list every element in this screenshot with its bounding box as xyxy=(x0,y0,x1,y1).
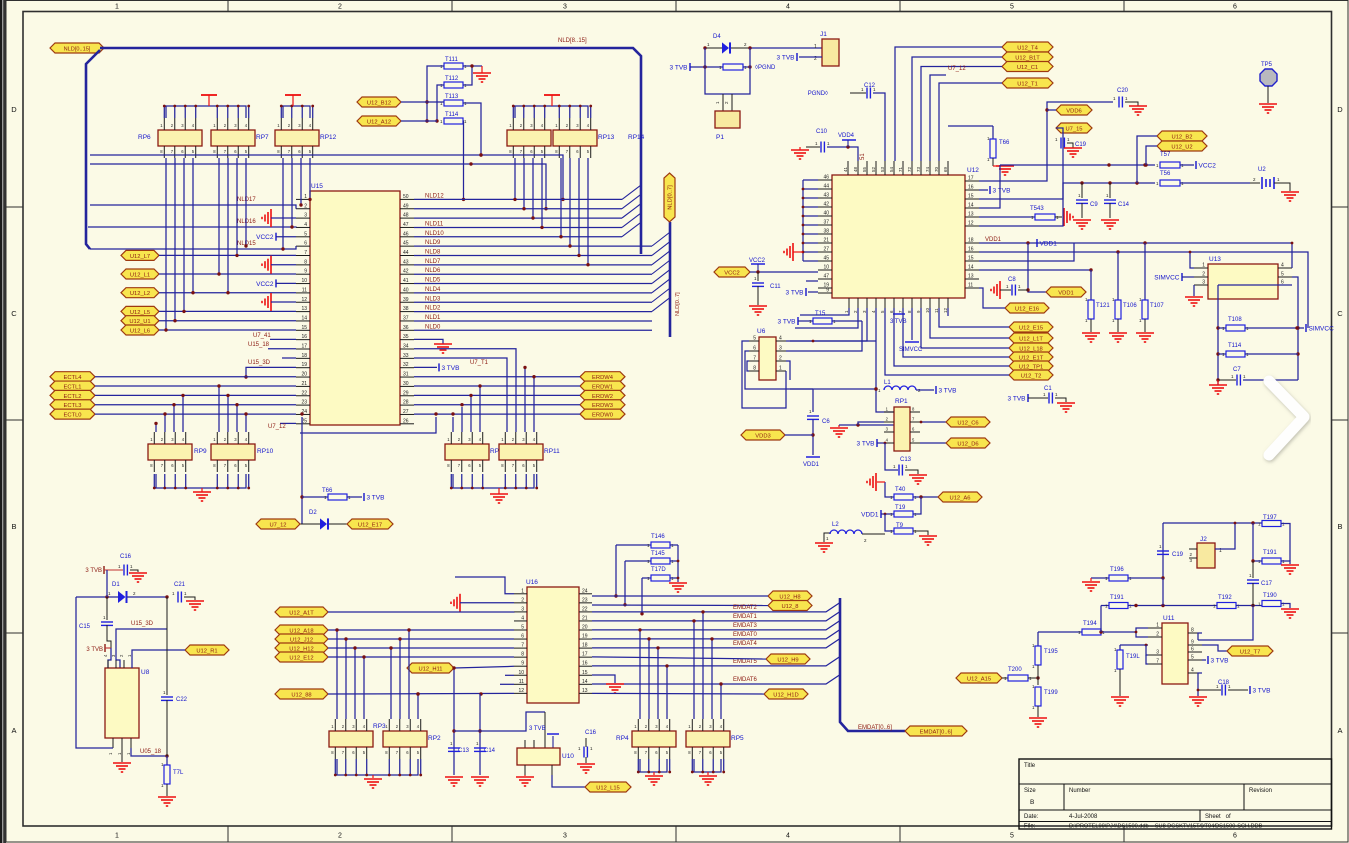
wire C14b vertical xyxy=(479,694,481,775)
svg-text:T543: T543 xyxy=(1030,206,1044,212)
svg-text:U12_H8: U12_H8 xyxy=(779,594,800,600)
svg-text:RP4: RP4 xyxy=(616,735,629,742)
wire U11 to C18 xyxy=(1198,689,1221,691)
wire U16 pin23 xyxy=(592,604,768,607)
wire ERDW4 xyxy=(414,376,580,378)
ground U11 xyxy=(1189,696,1207,698)
svg-text:U12_A1T: U12_A1T xyxy=(289,610,314,616)
svg-text:ECTL3: ECTL3 xyxy=(63,403,81,409)
svg-text:26: 26 xyxy=(403,418,409,424)
svg-text:14: 14 xyxy=(968,203,974,209)
svg-text:RP3: RP3 xyxy=(373,723,386,730)
wire U13 pin1 tap xyxy=(1190,252,1194,268)
svg-text:1: 1 xyxy=(1156,623,1159,629)
svg-text:3 TVB: 3 TVB xyxy=(778,319,796,326)
wire U12_T4 xyxy=(895,47,1002,161)
wire U12 bottom pin12 drop xyxy=(947,308,949,316)
power VCC2 at U15 pin5 xyxy=(275,233,277,241)
svg-text:8: 8 xyxy=(521,652,524,658)
wire U15 pin16 stub xyxy=(270,338,296,340)
svg-text:U15: U15 xyxy=(311,183,323,190)
svg-text:15: 15 xyxy=(968,256,974,262)
wire U16 pin17 xyxy=(592,657,766,659)
svg-text:B: B xyxy=(1337,522,1342,531)
bus NLD[0..7] vertical xyxy=(669,222,672,337)
port ECTL2 xyxy=(50,390,95,400)
power VDD1 bar xyxy=(1036,239,1038,247)
wire U7_12 top xyxy=(930,75,946,161)
wire U12 pin15 to U7_15 xyxy=(979,128,1063,199)
port U12_L15 xyxy=(585,782,631,792)
window left dark edge xyxy=(0,0,2,843)
wire T146 chain right xyxy=(677,545,679,582)
svg-text:T17D: T17D xyxy=(651,567,666,573)
resistor pack RP13 xyxy=(507,130,551,146)
border row ticks xyxy=(6,206,23,208)
ground T19L xyxy=(1111,696,1129,698)
svg-text:U15_18: U15_18 xyxy=(248,342,270,348)
port U12_E12 xyxy=(275,652,328,662)
port ECTL4 xyxy=(50,372,95,382)
wire U12_A1T xyxy=(328,611,514,613)
ground C16 xyxy=(129,572,147,574)
port U12_C1 xyxy=(1002,62,1053,72)
svg-text:73: 73 xyxy=(916,166,921,172)
port NLD[0..15] xyxy=(50,43,104,53)
svg-text:U12_T7: U12_T7 xyxy=(1240,649,1261,655)
port U12_U2 xyxy=(1157,141,1207,151)
wire U12 left vertical tie xyxy=(802,180,804,261)
svg-text:U12_L15: U12_L15 xyxy=(596,785,620,791)
U12 right pins top xyxy=(965,180,979,182)
wire T191 branch down xyxy=(1100,606,1102,633)
resistor pack RP6 xyxy=(158,130,202,146)
svg-text:54: 54 xyxy=(889,166,894,172)
svg-text:NLD0: NLD0 xyxy=(425,324,441,330)
wire VCC2 to U12 pin xyxy=(750,271,818,273)
svg-text:T114: T114 xyxy=(445,112,459,118)
svg-text:U12_A12: U12_A12 xyxy=(367,119,391,125)
svg-text:T146: T146 xyxy=(651,534,665,540)
power SIMVCC below U12 xyxy=(911,308,913,340)
wire D4 to J1 xyxy=(750,47,822,49)
wire J2 pin1 xyxy=(1215,523,1235,549)
wire U12 left pin bundle xyxy=(803,179,818,181)
port VDD3 xyxy=(741,430,785,440)
U16 left pins xyxy=(514,593,527,595)
wire RP4 pins up xyxy=(639,630,641,719)
port U12_L1 xyxy=(121,269,159,279)
svg-text:T111: T111 xyxy=(445,57,458,63)
port U12_A15 xyxy=(956,673,1002,683)
svg-text:C11: C11 xyxy=(770,284,781,290)
wire ERDW1 xyxy=(414,385,580,387)
svg-text:21: 21 xyxy=(301,381,307,387)
svg-text:U12_8: U12_8 xyxy=(781,604,798,610)
ground U16 pin15 xyxy=(606,683,624,685)
wire C13b vertical xyxy=(453,668,455,775)
port ERDW3 xyxy=(580,400,625,410)
svg-text:U12_C6: U12_C6 xyxy=(957,420,978,426)
svg-text:47: 47 xyxy=(823,274,829,280)
svg-text:17: 17 xyxy=(582,652,588,658)
svg-text:U12_A6: U12_A6 xyxy=(950,495,971,501)
ground RP3/RP2 xyxy=(364,778,382,780)
svg-text:T191: T191 xyxy=(1263,550,1277,556)
svg-text:T57: T57 xyxy=(1160,152,1171,158)
U15 right NLD wires xyxy=(414,198,622,200)
power TVB at U10 xyxy=(547,733,559,735)
resistor pack RP4 xyxy=(632,731,676,747)
svg-text:T40: T40 xyxy=(895,487,906,493)
svg-text:36: 36 xyxy=(403,325,409,331)
wire U6 left loop xyxy=(742,341,786,408)
wire U15 pin25 stub xyxy=(280,422,296,424)
U11 right pins xyxy=(1188,632,1202,634)
port U12_A1T xyxy=(275,607,328,617)
svg-text:3 TVB: 3 TVB xyxy=(890,319,907,325)
svg-text:J1: J1 xyxy=(820,31,827,38)
svg-text:C15: C15 xyxy=(79,624,91,630)
U8 bottom pins xyxy=(112,738,114,748)
svg-text:3 TVB: 3 TVB xyxy=(367,495,385,502)
wire T114 right down xyxy=(462,121,465,199)
ground T190 xyxy=(1281,608,1299,610)
svg-text:14: 14 xyxy=(582,679,588,685)
wire U11 pin9 port xyxy=(1202,645,1227,651)
wire J1 pin2 xyxy=(799,56,822,58)
ground U8 xyxy=(121,748,123,762)
ground C14 xyxy=(1101,219,1119,221)
wire U7_12 xyxy=(300,417,436,433)
port U12_A18 xyxy=(275,625,328,635)
svg-text:U8: U8 xyxy=(141,669,150,676)
U12 left pins xyxy=(818,179,832,181)
port U12_H9 xyxy=(766,654,810,664)
U6 left pins xyxy=(749,340,759,342)
wire U12_L1 xyxy=(159,273,296,275)
wire U16 pin1 stub xyxy=(455,577,514,594)
svg-text:4-Jul-2008: 4-Jul-2008 xyxy=(1069,814,1098,820)
wire U13 pin3 ground xyxy=(1193,285,1195,296)
svg-text:J2: J2 xyxy=(1200,536,1207,543)
svg-text:T192: T192 xyxy=(1218,595,1232,601)
svg-text:16: 16 xyxy=(301,334,307,340)
port U7_15 xyxy=(1056,123,1092,133)
svg-text:NLD10: NLD10 xyxy=(425,231,444,237)
svg-text:55: 55 xyxy=(862,166,867,172)
svg-text:U7_12: U7_12 xyxy=(948,66,966,72)
U16 right pins xyxy=(579,593,592,595)
svg-text:NLD1: NLD1 xyxy=(425,315,441,321)
svg-text:U15_3D: U15_3D xyxy=(248,360,271,366)
svg-text:NLD7: NLD7 xyxy=(425,259,441,265)
U12 right pins bottom xyxy=(965,242,979,244)
wire U12 pin17 to VDD6 net xyxy=(979,102,1113,181)
svg-text:U12_U1: U12_U1 xyxy=(129,319,150,325)
ground T191b xyxy=(1281,564,1299,566)
svg-text:T145: T145 xyxy=(651,551,665,557)
resistor pack RP3 xyxy=(329,731,373,747)
port U12_L5 xyxy=(121,306,159,316)
svg-text:6: 6 xyxy=(1233,4,1237,11)
power VCC2 right xyxy=(1195,161,1197,169)
svg-text:1: 1 xyxy=(779,366,782,372)
svg-text:2: 2 xyxy=(304,203,307,209)
svg-text:10: 10 xyxy=(925,307,930,313)
svg-text:37: 37 xyxy=(403,315,409,321)
svg-text:C20: C20 xyxy=(1117,88,1129,94)
wire RP3/RP2 bottom tie xyxy=(337,759,418,775)
svg-text:22: 22 xyxy=(582,606,588,612)
wire U11 pin2 xyxy=(1136,632,1148,637)
svg-text:7: 7 xyxy=(304,250,307,256)
svg-text:6: 6 xyxy=(1191,647,1194,653)
port U12_J12 xyxy=(275,634,328,644)
svg-text:VCC2: VCC2 xyxy=(256,234,274,241)
svg-text:6: 6 xyxy=(304,241,307,247)
svg-text:T121: T121 xyxy=(1096,303,1110,309)
svg-text:C19: C19 xyxy=(1075,142,1087,148)
svg-text:11: 11 xyxy=(519,679,524,685)
wire L1 row xyxy=(790,388,876,390)
ground U15 pin35 xyxy=(434,343,452,345)
svg-text:U12_E15: U12_E15 xyxy=(1019,325,1043,331)
svg-text:EMDAT3: EMDAT3 xyxy=(733,623,758,629)
svg-text:20: 20 xyxy=(301,372,307,378)
svg-text:1: 1 xyxy=(115,4,119,11)
resistor pack RP2 xyxy=(383,731,427,747)
port U12_T1 xyxy=(1002,78,1053,88)
ground T121 xyxy=(1082,332,1100,334)
port U12_L2 xyxy=(121,288,159,298)
svg-text:16: 16 xyxy=(582,661,588,667)
svg-text:17: 17 xyxy=(968,176,974,182)
svg-text:4: 4 xyxy=(786,4,790,11)
port U12_H11 xyxy=(407,663,454,673)
power VDD1 down xyxy=(806,456,820,458)
ground TP5 xyxy=(1259,103,1277,105)
wire U12_B2 drop xyxy=(1137,136,1157,183)
wire U10 top pins xyxy=(524,740,526,748)
svg-text:35: 35 xyxy=(403,334,409,340)
resistor pack RP5 xyxy=(686,731,730,747)
wire long y165 xyxy=(979,165,1000,208)
svg-text:C22: C22 xyxy=(176,697,188,703)
svg-text:U12_L6: U12_L6 xyxy=(130,328,150,334)
power 3 TVB at L1 xyxy=(935,386,937,394)
svg-text:2: 2 xyxy=(1156,632,1159,638)
port ERDW2 xyxy=(580,390,625,400)
svg-text:69: 69 xyxy=(943,166,948,172)
svg-text:3 TVB: 3 TVB xyxy=(442,365,460,372)
svg-text:T19: T19 xyxy=(895,505,906,511)
wire U12_U2 drop xyxy=(1146,146,1157,165)
svg-text:ERDW4: ERDW4 xyxy=(592,375,614,381)
svg-text:32: 32 xyxy=(403,362,409,368)
ground C13 xyxy=(909,474,927,476)
svg-text:U12_H1D: U12_H1D xyxy=(773,692,798,698)
ground U2 xyxy=(1281,191,1299,193)
port U12_T2 xyxy=(1009,370,1053,380)
ground C9 xyxy=(1073,219,1091,221)
ground left of U12 xyxy=(792,243,794,261)
svg-text:17: 17 xyxy=(301,344,307,350)
svg-text:ECTL4: ECTL4 xyxy=(63,375,82,381)
svg-text:18: 18 xyxy=(301,353,307,359)
border column ticks xyxy=(227,1,229,12)
svg-text:3 TVB: 3 TVB xyxy=(529,726,546,732)
wire NLD16 xyxy=(88,226,296,228)
svg-text:T66: T66 xyxy=(999,140,1010,146)
port U12_H1D xyxy=(764,689,808,699)
ground RP8/RP11 xyxy=(490,493,508,495)
wire U8 outer loop xyxy=(76,597,113,748)
svg-text:3: 3 xyxy=(1156,650,1159,656)
svg-text:NLD4: NLD4 xyxy=(425,287,441,293)
ground right of T543 xyxy=(1063,208,1065,226)
svg-text:3 TVB: 3 TVB xyxy=(670,65,688,72)
svg-text:T194: T194 xyxy=(1083,621,1097,627)
svg-text:VDD3: VDD3 xyxy=(755,433,770,439)
ground near C6 xyxy=(838,425,840,427)
wire U6 bottom to C6 xyxy=(812,389,814,412)
wire U12_L2 xyxy=(159,292,296,294)
svg-text:U7_12: U7_12 xyxy=(268,424,286,430)
svg-text:6: 6 xyxy=(521,634,524,640)
port U12_U1 xyxy=(121,316,159,326)
svg-text:12: 12 xyxy=(518,688,524,694)
U13 right pins xyxy=(1278,267,1292,269)
svg-text:VCC2: VCC2 xyxy=(749,258,766,264)
wire C19b lower xyxy=(1162,578,1164,606)
resistor pack RP9 xyxy=(148,444,192,460)
svg-text:RP10: RP10 xyxy=(257,448,274,455)
wires EMDAT to bus xyxy=(592,603,840,612)
svg-text:U7_41: U7_41 xyxy=(253,333,271,339)
svg-text:30: 30 xyxy=(403,381,409,387)
svg-text:D2: D2 xyxy=(309,510,317,516)
wire U15 pin33 xyxy=(414,358,507,432)
port ECTL0 xyxy=(50,409,95,419)
svg-text:T113: T113 xyxy=(445,94,459,100)
svg-text:◊PGND: ◊PGND xyxy=(755,64,776,71)
wire U12_C1 xyxy=(921,67,1002,162)
svg-text:T56: T56 xyxy=(1160,171,1171,177)
svg-text:7: 7 xyxy=(1156,659,1159,665)
svg-text:19: 19 xyxy=(582,634,588,640)
svg-text:EMDAT[0..6]: EMDAT[0..6] xyxy=(920,729,953,735)
svg-text:L1: L1 xyxy=(884,380,891,386)
svg-text:2: 2 xyxy=(1202,272,1205,278)
svg-text:RP1: RP1 xyxy=(895,398,908,405)
ground RP5 xyxy=(699,775,717,777)
resistor pack RP8 xyxy=(445,444,489,460)
svg-text:RP6: RP6 xyxy=(138,134,151,141)
svg-text:NLD[8..15]: NLD[8..15] xyxy=(558,38,587,44)
ground T196 xyxy=(1090,578,1092,581)
bus NLD left branch xyxy=(100,47,104,50)
wire U16 pin15 ground xyxy=(592,675,615,683)
svg-text:ECTL2: ECTL2 xyxy=(63,394,81,400)
port U12_D6 xyxy=(946,438,990,448)
svg-text:U05_18: U05_18 xyxy=(140,749,162,755)
chevron next arrow xyxy=(1269,381,1304,455)
svg-text:43: 43 xyxy=(403,259,409,265)
svg-text:U12_A15: U12_A15 xyxy=(967,676,991,682)
svg-text:3: 3 xyxy=(304,213,307,219)
svg-text:VDD1: VDD1 xyxy=(985,237,1002,243)
svg-text:D4: D4 xyxy=(713,34,721,40)
port U12_E15 xyxy=(1009,322,1053,332)
ground C11 xyxy=(749,305,767,307)
svg-text:4: 4 xyxy=(779,336,782,342)
port ERDW4 xyxy=(580,372,625,382)
wire C17 down to U11 pin8 xyxy=(1198,606,1253,641)
svg-text:NLD[0..7]: NLD[0..7] xyxy=(668,185,674,210)
port ERDW0 xyxy=(580,409,625,419)
svg-text:ERDW0: ERDW0 xyxy=(592,413,613,419)
svg-text:NLD11: NLD11 xyxy=(425,221,444,227)
svg-text:3 TVB: 3 TVB xyxy=(1211,658,1229,665)
svg-text:C9: C9 xyxy=(1090,202,1098,208)
resistor pack RP14 xyxy=(553,130,597,146)
U15 right pins xyxy=(400,423,414,425)
wire NLD15 xyxy=(90,246,296,249)
svg-text:5: 5 xyxy=(753,336,756,342)
wire U13 pin6 down xyxy=(1218,284,1292,286)
svg-text:A: A xyxy=(11,726,16,735)
port EMDAT[0..6] xyxy=(905,726,967,736)
svg-text:2: 2 xyxy=(338,833,342,840)
svg-text:T191: T191 xyxy=(1110,595,1124,601)
svg-text:28: 28 xyxy=(403,400,409,406)
svg-text:38: 38 xyxy=(823,229,829,235)
wire U12_L6 xyxy=(159,329,296,331)
svg-text:72: 72 xyxy=(907,166,912,172)
wire VDD3 xyxy=(785,434,813,436)
svg-text:U12_E12: U12_E12 xyxy=(289,655,313,661)
port VCC2 xyxy=(714,267,750,277)
wire U12_88 xyxy=(328,692,514,695)
bus entries to bus1 xyxy=(622,185,641,199)
ground RP9/RP10 xyxy=(193,491,211,493)
svg-text:19: 19 xyxy=(301,362,307,368)
wire C19b vertical xyxy=(1162,523,1164,578)
svg-text:1: 1 xyxy=(814,44,817,50)
power 3 TVB at J1 pin2 xyxy=(796,53,798,61)
svg-text:C17: C17 xyxy=(1261,581,1273,587)
U15 left pins xyxy=(296,198,310,200)
port U12_R1 xyxy=(185,645,229,655)
ground C19 xyxy=(1064,147,1082,149)
svg-text:13: 13 xyxy=(968,212,974,218)
wire RP9/RP10 bottom tie + ground xyxy=(156,474,246,488)
svg-text:EMDAT0: EMDAT0 xyxy=(733,632,758,638)
svg-text:3 TVB: 3 TVB xyxy=(85,568,102,574)
svg-text:44: 44 xyxy=(823,184,829,190)
wire ECTL3 xyxy=(95,404,296,406)
wire U12_E12 xyxy=(328,656,514,658)
svg-text:Number: Number xyxy=(1069,788,1090,794)
wire T194 to U11 xyxy=(1118,628,1148,632)
wire U12 pin14b xyxy=(979,269,1091,271)
svg-text:U12_L5: U12_L5 xyxy=(130,310,150,316)
ground C10 xyxy=(799,147,801,150)
wire T191b left xyxy=(1253,523,1262,561)
power bar VCC top of RP6/RP7 xyxy=(201,94,217,96)
svg-text:15: 15 xyxy=(582,670,588,676)
